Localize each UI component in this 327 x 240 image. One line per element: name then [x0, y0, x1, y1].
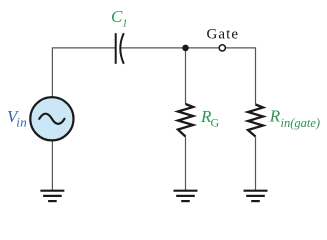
svg-text:C: C — [111, 7, 123, 26]
capacitor C1 — [116, 33, 124, 64]
resistor Rin(gate) — [248, 105, 263, 137]
wire RG branch vertical upper — [185, 48, 187, 104]
svg-text:in(gate): in(gate) — [281, 116, 321, 130]
svg-text:R: R — [269, 107, 281, 126]
svg-text:in: in — [16, 114, 27, 129]
ground under Vin — [40, 191, 64, 201]
wire Rin(gate) bottom to ground — [255, 137, 257, 191]
wire RG bottom to ground — [185, 137, 187, 191]
svg-text:1: 1 — [122, 19, 127, 30]
resistor RG — [178, 104, 193, 137]
source Vin — [30, 97, 73, 140]
svg-text:G: G — [211, 116, 220, 130]
node junction dot at RG branch — [182, 45, 189, 52]
svg-text:Gate: Gate — [206, 27, 239, 43]
node Gate open terminal — [219, 45, 225, 51]
wire top from Vin to capacitor — [52, 48, 115, 98]
ground under RG — [174, 191, 198, 201]
ground under Rin(gate) — [244, 191, 268, 201]
wire top from capacitor to gate corner and down to Rin(gate) — [121, 48, 256, 105]
wire Vin bottom to ground — [51, 140, 53, 190]
